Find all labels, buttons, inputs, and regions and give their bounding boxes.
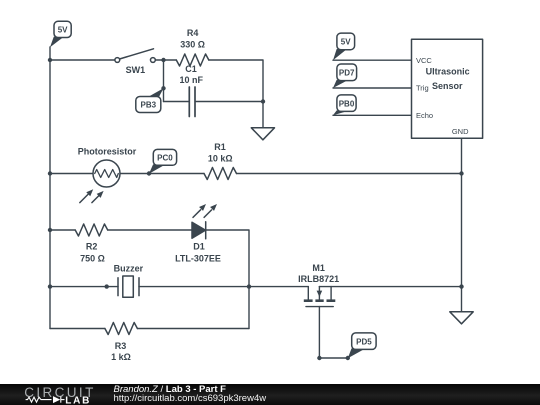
node: PB3 tap on vertical wire [161,86,165,90]
wire switch node down to capacitor row [163,60,165,102]
svg-text:R1: R1 [214,142,226,152]
wire switch right to R4 [155,59,176,61]
node: switch/R4 junction [161,58,165,62]
switch SW1 [115,49,155,63]
wire capacitor left lead [164,101,189,103]
svg-text:R2: R2 [86,242,98,252]
wire R2 row left [50,229,75,231]
svg-text:http://circuitlab.com/cs693pk3: http://circuitlab.com/cs693pk3rew4w [114,393,267,404]
node: PD5 tap [346,356,350,360]
svg-text:C1: C1 [185,64,197,74]
node: left rail / switch row [48,58,52,62]
svg-text:Echo: Echo [416,111,433,120]
wire Trig from PD7 flag to sensor [333,87,412,89]
node: left rail / R2 row [48,228,52,232]
node: R1 row / GND rail [459,171,463,175]
node: left rail / buzzer row [48,284,52,288]
flag PD5 [348,333,376,358]
svg-text:Sensor: Sensor [432,81,463,91]
wire MOSFET source row to GND rail [319,286,461,288]
CircuitLab logo [0,384,300,405]
wire MOSFET gate down and right to PD5 [319,307,347,358]
resistor R4 330ohm [176,54,209,66]
node: buzzer row / D1 vertical [247,284,251,288]
svg-text:750 Ω: 750 Ω [80,254,105,264]
node: PC0 tap [147,171,151,175]
wire buzzer row left [50,286,118,288]
wire photoresistor to R1 [120,173,204,175]
svg-text:PC0: PC0 [157,154,173,163]
wire R3 row right [137,328,249,330]
flag PC0 [149,149,177,173]
svg-text:R3: R3 [115,341,127,351]
node: source row / GND rail [459,284,463,288]
svg-text:PB3: PB3 [141,101,157,110]
footer bar [0,384,540,405]
node: buzzer left lead [105,284,109,288]
node: left rail / photoresistor row [48,171,52,175]
svg-text:LTL-307EE: LTL-307EE [175,254,221,264]
photoresistor [80,160,120,203]
svg-text:330 Ω: 330 Ω [180,39,205,49]
transistor M1 IRLB8721 NMOS [304,287,336,307]
wire D1 to right corner down [206,230,249,329]
ground (bottom right, sensor GND rail) [450,312,473,324]
ultrasonic sensor box U1 [412,39,483,138]
svg-text:GND: GND [452,127,469,136]
wire R1 to GND rail [237,173,462,175]
svg-text:PD7: PD7 [339,69,355,78]
svg-text:D1: D1 [193,242,205,252]
ground (top right of R4/C1) [251,128,274,140]
wire buzzer to MOSFET drain [139,286,308,288]
wire switch row left [50,59,115,61]
svg-text:Photoresistor: Photoresistor [78,147,137,157]
wire sensor GND down to ground symbol [461,138,463,311]
svg-text:PD5: PD5 [356,337,372,346]
wire photoresistor row left [50,173,93,175]
wire VCC from 5V flag to sensor [333,59,412,61]
node: gate corner [317,356,321,360]
wire capacitor right lead [196,101,263,103]
svg-text:M1: M1 [312,263,325,273]
resistor R3 1kohm [105,323,137,335]
flag PB0 [333,95,356,115]
svg-text:Trig: Trig [416,84,429,93]
svg-text:5V: 5V [341,38,351,47]
svg-text:Ultrasonic: Ultrasonic [426,67,470,77]
node: capacitor row / right vertical [261,99,265,103]
flag PD7 [333,64,357,88]
svg-text:IRLB8721: IRLB8721 [298,274,339,284]
wire R3 row left [50,328,105,330]
diode D1 LED LTL-307EE [192,204,217,239]
flag 5V (sensor VCC) [333,33,355,60]
svg-text:10 kΩ: 10 kΩ [208,154,233,164]
svg-text:LAB: LAB [65,395,91,405]
svg-text:10 nF: 10 nF [179,75,203,85]
buzzer [118,276,139,297]
flag 5V (left rail) [50,21,71,47]
wire left rail from 5V flag down to R3 row [49,47,51,329]
svg-text:1 kΩ: 1 kΩ [111,352,131,362]
svg-text:R4: R4 [187,28,199,38]
resistor R1 10kohm [204,168,237,180]
wire R2 to D1 [108,229,192,231]
svg-text:PB0: PB0 [339,99,355,108]
wire Echo from PB0 flag to sensor [333,114,412,116]
capacitor C1 10nF [189,87,195,117]
svg-text:SW1: SW1 [126,65,146,75]
svg-text:Buzzer: Buzzer [114,264,144,274]
wire R4 to right corner and down to ground [209,60,263,128]
svg-text:VCC: VCC [416,56,432,65]
flag PB3 [136,88,164,112]
resistor R2 750ohm [75,224,108,236]
svg-text:5V: 5V [58,26,68,35]
